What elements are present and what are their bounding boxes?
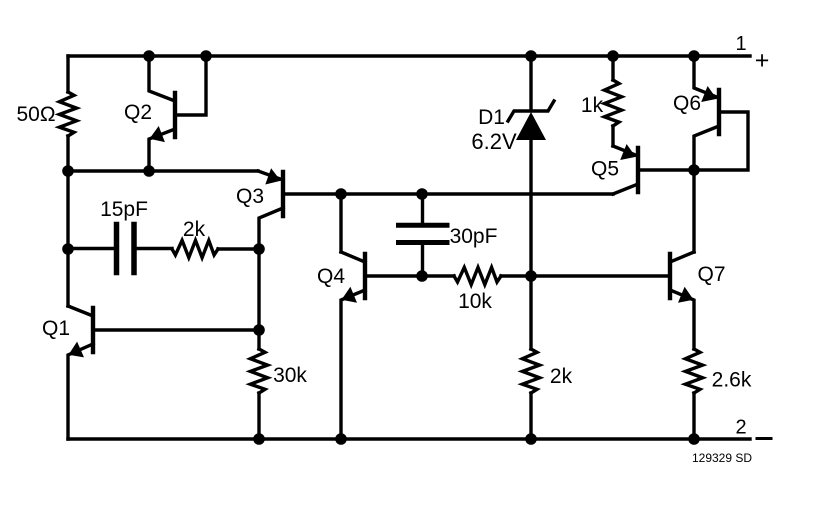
junction node (68,171) xyxy=(62,165,74,177)
transistor Q6 bar xyxy=(717,90,721,134)
junction node (149,56) xyxy=(143,50,155,62)
transistor Q1 bar xyxy=(91,308,95,352)
transistor Q3 collector wire xyxy=(259,208,283,249)
resistor 2k (shunt) xyxy=(522,349,539,393)
wire capacitor 30pF to node 422,276 xyxy=(421,244,424,276)
transistor Q2 emitter wire xyxy=(149,129,175,171)
svg-text:15pF: 15pF xyxy=(100,198,148,221)
svg-text:Q5: Q5 xyxy=(591,158,619,181)
wire capacitor 15pF to resistor 2k xyxy=(137,247,172,250)
transistor Q3 emitter arrow xyxy=(265,168,280,184)
svg-text:D1: D1 xyxy=(478,106,505,129)
transistor Q2 bar xyxy=(173,93,177,137)
zener D1 cathode bar xyxy=(508,101,554,121)
wire node 694,170 to Q7 collector xyxy=(692,170,695,252)
capacitor 15pF left plate xyxy=(114,225,120,273)
wire resistor 30k to bottom rail xyxy=(257,393,260,439)
transistor Q3 emitter wire xyxy=(258,171,283,180)
svg-text:Q7: Q7 xyxy=(697,263,725,286)
transistor Q6 base wire xyxy=(694,112,748,170)
wire resistor 2k to node 259,249 xyxy=(218,247,259,250)
svg-text:2k: 2k xyxy=(550,365,573,388)
transistor Q2 collector wire xyxy=(149,56,175,101)
wire node 68,249 to capacitor C1 xyxy=(68,247,113,250)
resistor 10k xyxy=(454,267,501,284)
junction node (68,249) xyxy=(62,243,74,255)
capacitor 30pF top plate xyxy=(399,223,448,228)
wire node 68,171 to Q3 emitter xyxy=(68,169,258,172)
junction node (341,439) xyxy=(335,433,347,445)
terminal minus sign xyxy=(757,437,771,440)
resistor 30k xyxy=(250,349,267,393)
junction node (259,330) xyxy=(253,324,265,336)
resistor 2k (compensation) xyxy=(172,240,218,257)
transistor Q1 emitter arrow xyxy=(69,342,85,358)
transistor Q5 emitter wire xyxy=(613,146,638,156)
svg-text:1: 1 xyxy=(735,33,746,55)
svg-text:30k: 30k xyxy=(273,364,307,387)
svg-text:Q2: Q2 xyxy=(124,101,152,124)
junction node (694,439) xyxy=(688,433,700,445)
capacitor 15pF right plate xyxy=(131,225,137,273)
resistor 2.6k xyxy=(685,349,702,393)
svg-text:2: 2 xyxy=(735,417,746,439)
svg-text:6.2V: 6.2V xyxy=(471,129,517,154)
junction node (259,439) xyxy=(253,433,265,445)
wire zener D1 anode to node 531,276 xyxy=(529,140,532,276)
svg-text:10k: 10k xyxy=(458,290,492,313)
resistor 50ohm xyxy=(59,92,76,136)
resistor 1k xyxy=(604,80,621,126)
svg-text:1k: 1k xyxy=(581,94,604,117)
transistor Q3 bar xyxy=(281,172,285,216)
wire top rail to zener D1 xyxy=(529,56,532,108)
transistor Q4 collector wire xyxy=(341,252,365,262)
transistor Q1 collector wire xyxy=(68,306,93,316)
transistor Q7 emitter wire xyxy=(670,290,694,349)
capacitor 30pF bottom plate xyxy=(399,240,448,245)
wire resistor 1k to Q5 emitter xyxy=(611,126,614,146)
transistor Q5 base wire xyxy=(638,168,694,171)
transistor Q2 base wire xyxy=(175,56,206,115)
wire from top rail to 50-ohm resistor xyxy=(66,56,69,92)
junction node (531,439) xyxy=(525,433,537,445)
svg-text:Q3: Q3 xyxy=(236,185,264,208)
wire resistor 2k shunt to bottom rail xyxy=(529,393,532,439)
transistor Q4 base wire xyxy=(365,274,422,277)
wire node 422,276 to resistor 10k xyxy=(422,274,454,277)
transistor Q7 bar xyxy=(668,254,672,298)
wire bottom rail (node 2) xyxy=(68,437,750,440)
transistor Q7 emitter arrow xyxy=(678,287,694,303)
svg-text:129329 SD: 129329 SD xyxy=(692,451,752,465)
wire resistor 10k to Q7 base xyxy=(501,274,668,277)
junction node (694,56) xyxy=(688,50,700,62)
svg-text:+: + xyxy=(755,47,770,75)
junction node (206,56) xyxy=(200,50,212,62)
transistor Q1 emitter wire xyxy=(68,344,93,439)
svg-text:Q6: Q6 xyxy=(673,92,701,115)
wire node 531,276 to resistor 2k shunt xyxy=(529,276,532,349)
svg-text:Q4: Q4 xyxy=(317,265,345,288)
junction node (422,194) xyxy=(416,188,428,200)
wire node 341,194 to Q4 collector xyxy=(339,194,342,252)
wire 50-ohm resistor to node A xyxy=(66,136,69,306)
transistor Q5 bar xyxy=(636,148,640,192)
transistor Q6 emitter arrow xyxy=(701,86,717,102)
junction node (259,249) xyxy=(253,243,265,255)
transistor Q6 collector wire xyxy=(694,126,719,170)
transistor Q4 bar xyxy=(363,254,367,298)
wire top rail (node 1) xyxy=(68,54,750,57)
zener D1 anode triangle xyxy=(516,112,546,140)
svg-text:Q1: Q1 xyxy=(42,317,70,340)
wire node 259,249 to node 259,330 xyxy=(257,249,260,330)
junction node (531,56) xyxy=(525,50,537,62)
transistor Q6 emitter wire xyxy=(694,56,719,98)
transistor Q5 collector wire xyxy=(613,184,638,194)
junction node (613,56) xyxy=(607,50,619,62)
svg-text:2k: 2k xyxy=(183,218,206,241)
transistor Q7 collector wire xyxy=(670,252,694,262)
transistor Q2 emitter arrow xyxy=(150,126,165,142)
junction node (341,194) xyxy=(335,188,347,200)
transistor Q5 emitter arrow xyxy=(620,144,636,160)
wire node 259,330 to resistor 30k xyxy=(257,330,260,349)
wire node 422,194 to capacitor 30pF xyxy=(421,194,424,223)
junction node (149,171) xyxy=(143,165,155,177)
transistor Q4 emitter wire xyxy=(341,290,365,439)
junction node (531,276) xyxy=(525,270,537,282)
junction node (422,276) xyxy=(416,270,428,282)
wire resistor 2.6k to bottom rail xyxy=(692,393,695,439)
transistor Q1 base wire xyxy=(93,328,259,331)
svg-text:50Ω: 50Ω xyxy=(16,103,55,126)
junction node (694,170) xyxy=(688,164,700,176)
svg-text:30pF: 30pF xyxy=(450,225,498,248)
wire top rail to resistor 1k xyxy=(611,56,614,80)
transistor Q4 emitter arrow xyxy=(342,287,358,303)
svg-text:2.6k: 2.6k xyxy=(712,369,752,392)
transistor Q3 base wire xyxy=(283,192,613,195)
